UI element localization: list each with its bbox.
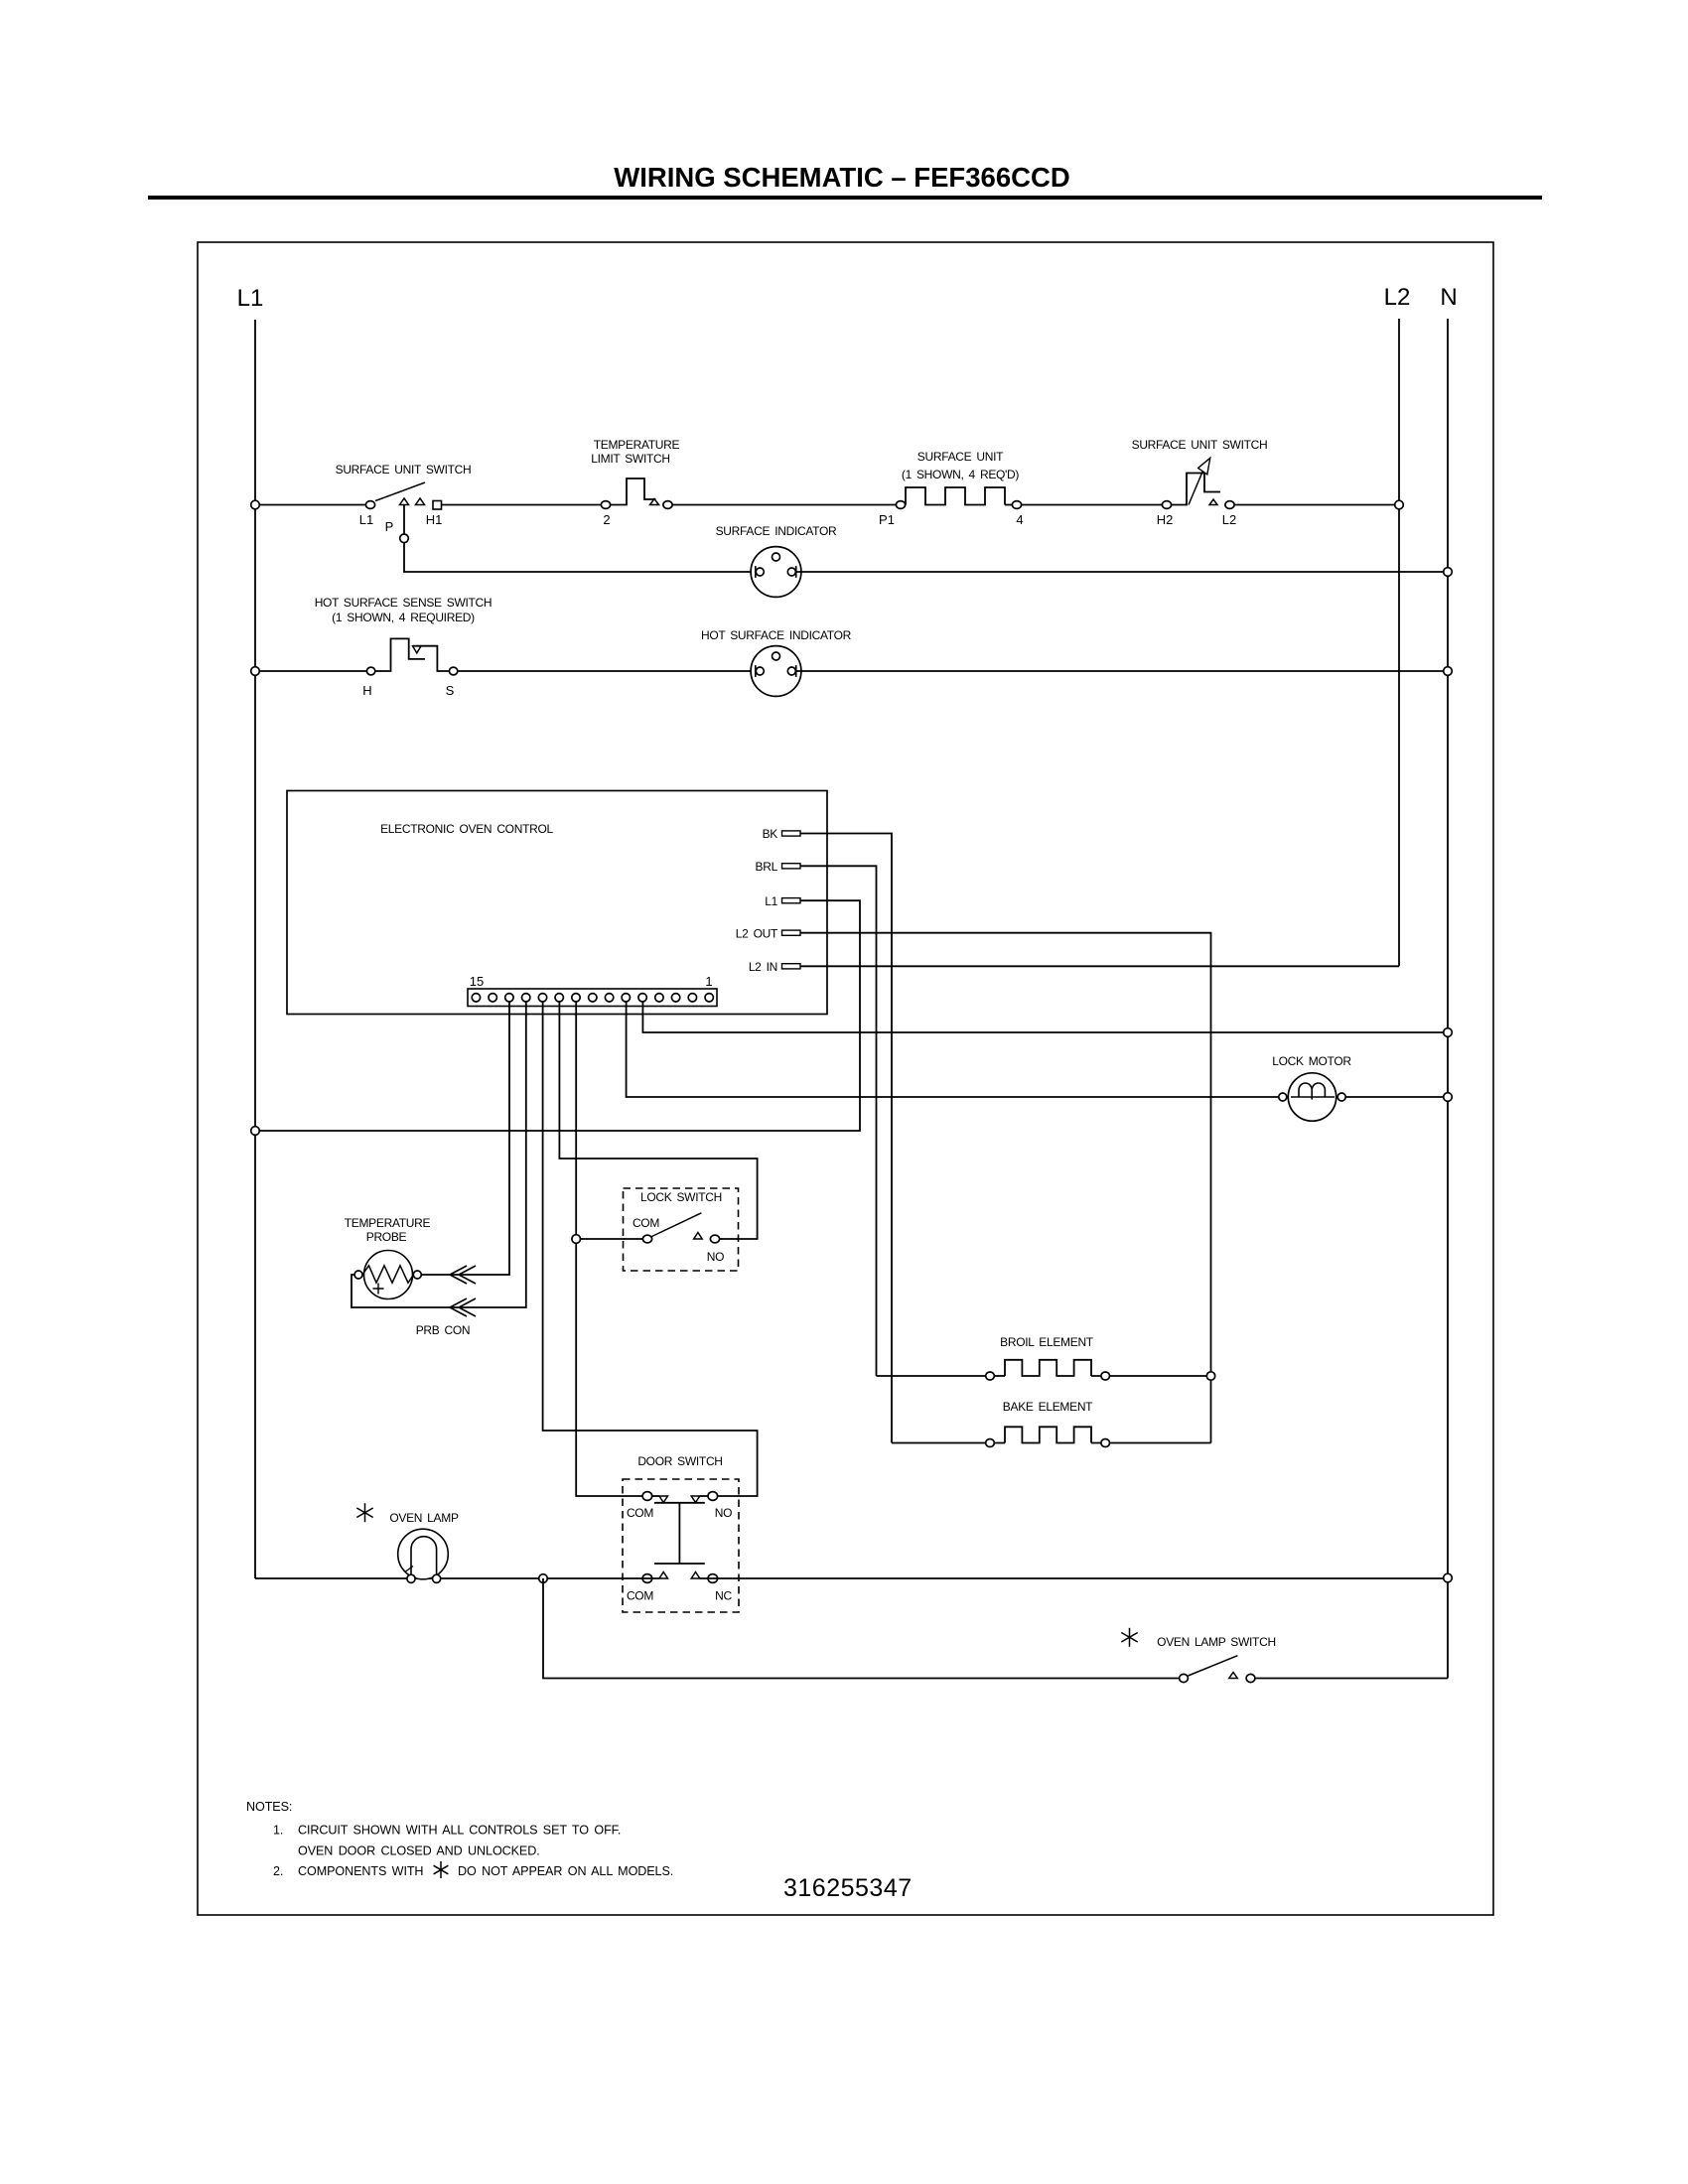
wire broil left	[877, 1375, 986, 1377]
wire door top contact to NO	[700, 1495, 708, 1497]
svg-text:316255347: 316255347	[783, 1874, 913, 1902]
temperature limit switch right terminal	[663, 501, 672, 509]
lock switch NO terminal	[710, 1235, 719, 1243]
note 2	[273, 1864, 673, 1878]
svg-text:WIRING SCHEMATIC – FEF366CCD: WIRING SCHEMATIC – FEF366CCD	[614, 162, 1069, 193]
door switch bottom contact triangle NC side	[691, 1572, 700, 1579]
broil element right terminal	[1101, 1372, 1110, 1380]
node pinrow-N junction	[1444, 1028, 1453, 1037]
svg-text:P: P	[385, 519, 394, 534]
lock switch dashed box	[624, 1188, 739, 1271]
wire pin drop to N row	[642, 1002, 1448, 1032]
surface unit switch SW1 terminal L1	[365, 501, 374, 509]
svg-text:15: 15	[470, 974, 484, 989]
surface unit switch SW2 terminal L2	[1225, 501, 1234, 509]
wire lamp row drop to switch	[543, 1578, 1179, 1679]
hot surface sense switch contact triangle	[413, 646, 422, 653]
door switch top contact triangle NO side	[691, 1496, 700, 1503]
wire pin drop to lock motor row	[627, 1002, 1279, 1097]
wire row3 middle segment	[458, 670, 756, 672]
svg-text:DOOR SWITCH: DOOR SWITCH	[637, 1454, 722, 1468]
svg-text:1: 1	[705, 974, 712, 989]
svg-text:NO: NO	[707, 1250, 724, 1264]
label door NC	[715, 1589, 732, 1603]
svg-text:LOCK SWITCH: LOCK SWITCH	[640, 1190, 722, 1204]
surface unit terminal 4	[1012, 501, 1021, 509]
svg-text:NO: NO	[715, 1506, 732, 1520]
oven lamp right terminal	[433, 1574, 441, 1582]
door switch bottom contact triangle COM side	[659, 1572, 668, 1579]
svg-text:2.: 2.	[273, 1864, 283, 1878]
node L1bus-EOC junction	[251, 1127, 260, 1136]
label H2 terminal	[1157, 512, 1174, 527]
svg-text:OVEN LAMP: OVEN LAMP	[389, 1511, 459, 1525]
wire EOC L2IN to L2 bus	[800, 965, 1399, 967]
svg-text:HOT SURFACE INDICATOR: HOT SURFACE INDICATOR	[701, 628, 852, 642]
svg-text:DO NOT APPEAR ON ALL MODELS.: DO NOT APPEAR ON ALL MODELS.	[458, 1864, 673, 1878]
bake element right terminal	[1101, 1439, 1110, 1447]
node row2-N junction	[1444, 568, 1453, 577]
svg-text:2: 2	[603, 512, 610, 527]
svg-text:LIMIT SWITCH: LIMIT SWITCH	[591, 452, 670, 466]
wire L2 bus vertical	[1398, 319, 1400, 966]
label P1 terminal	[879, 512, 895, 527]
svg-text:L1: L1	[237, 285, 264, 312]
title text	[614, 162, 1069, 193]
label broil element	[1000, 1335, 1094, 1349]
wire row1 H1 to limit switch	[442, 504, 602, 506]
lock switch blade	[652, 1213, 702, 1237]
svg-text:TEMPERATURE: TEMPERATURE	[345, 1216, 431, 1230]
label oven lamp	[389, 1511, 459, 1525]
svg-text:(1 SHOWN, 4 REQUIRED): (1 SHOWN, 4 REQUIRED)	[332, 611, 475, 624]
oven lamp switch asterisk	[1121, 1628, 1137, 1647]
wire N bus vertical	[1447, 319, 1449, 1679]
surface unit switch SW1 blade	[375, 482, 425, 501]
hot surface indicator lamp	[751, 646, 801, 697]
EOC pin L2 IN	[749, 960, 800, 974]
wire pin drop to door NO	[543, 1002, 758, 1496]
lock switch contact triangle	[694, 1233, 703, 1240]
label electronic oven control	[380, 822, 553, 836]
svg-text:HOT SURFACE SENSE SWITCH: HOT SURFACE SENSE SWITCH	[315, 596, 492, 610]
surface unit switch SW2 blade	[1189, 469, 1204, 505]
node row3-N junction	[1444, 667, 1453, 676]
wire EOC BK to bake corner	[800, 834, 892, 1443]
node lamprow-N junction	[1444, 1573, 1453, 1582]
svg-text:BRL: BRL	[756, 860, 778, 874]
label hot surface sense switch	[315, 596, 492, 624]
door switch top NO terminal	[708, 1492, 718, 1501]
label PRB CON	[416, 1323, 471, 1337]
surface unit switch SW2 arrowhead	[1198, 458, 1210, 475]
electronic oven control box	[287, 791, 827, 1015]
svg-text:TEMPERATURE: TEMPERATURE	[594, 438, 680, 452]
surface unit switch SW2 terminal H2	[1162, 501, 1171, 509]
surface unit switch SW2 contact triangle	[1209, 499, 1217, 505]
lock motor right terminal	[1337, 1093, 1345, 1101]
temperature probe right terminal	[413, 1271, 421, 1279]
svg-text:COM: COM	[627, 1589, 653, 1603]
wire bake left	[892, 1442, 985, 1444]
wire row1 terminal4 to H2	[1022, 504, 1163, 506]
svg-text:OVEN DOOR CLOSED AND UNLOCKED.: OVEN DOOR CLOSED AND UNLOCKED.	[298, 1844, 540, 1858]
label door COM top	[627, 1506, 653, 1520]
door switch top COM terminal	[642, 1492, 652, 1501]
probe connector chevrons upper	[450, 1266, 476, 1284]
label surface unit switch left	[336, 463, 472, 477]
svg-text:L2 IN: L2 IN	[749, 960, 777, 974]
label door COM bottom	[627, 1589, 653, 1603]
label lock motor	[1272, 1054, 1351, 1068]
svg-text:LOCK MOTOR: LOCK MOTOR	[1272, 1054, 1351, 1068]
label connector 1	[705, 974, 712, 989]
wire row3 right segment	[796, 670, 1448, 672]
wire EOC L1 to L1 bus	[259, 900, 860, 1131]
wire lock node to COM	[581, 1238, 643, 1240]
oven lamp bulb	[398, 1529, 449, 1579]
temperature limit switch label	[591, 438, 679, 466]
lock motor left terminal	[1279, 1093, 1287, 1101]
door switch top contact triangle COM side	[659, 1496, 668, 1503]
net label L1	[237, 285, 264, 312]
label 4 terminal	[1016, 512, 1023, 527]
svg-text:COM: COM	[627, 1506, 653, 1520]
wire lamp switch to N	[1255, 1678, 1448, 1680]
svg-text:SURFACE UNIT SWITCH: SURFACE UNIT SWITCH	[336, 463, 472, 477]
label surface unit switch right	[1132, 438, 1268, 452]
hot surface sense switch terminal S	[449, 667, 457, 675]
note 1 line 2	[298, 1844, 540, 1858]
oven lamp switch blade	[1189, 1656, 1238, 1676]
oven lamp asterisk	[356, 1503, 372, 1522]
node lamprow drop junction	[539, 1574, 548, 1583]
svg-text:SURFACE UNIT SWITCH: SURFACE UNIT SWITCH	[1132, 438, 1268, 452]
wire P drop lower and row2 left	[404, 543, 756, 572]
wire P drop upper	[403, 505, 405, 535]
svg-text:4: 4	[1016, 512, 1023, 527]
node lockmotor-N junction	[1444, 1093, 1453, 1102]
broil element left terminal	[986, 1372, 995, 1380]
svg-text:ELECTRONIC OVEN CONTROL: ELECTRONIC OVEN CONTROL	[380, 822, 553, 836]
wire broil terminal to element	[995, 1375, 1006, 1377]
wire row1 limit switch to P1	[672, 504, 896, 506]
label oven lamp switch	[1157, 1635, 1276, 1649]
svg-text:BROIL ELEMENT: BROIL ELEMENT	[1000, 1335, 1094, 1349]
label S terminal	[446, 683, 455, 698]
wire pin drop to lock COM and door COM	[576, 1002, 642, 1496]
EOC pin L1	[765, 894, 800, 908]
label bake element	[1003, 1400, 1093, 1414]
hot surface sense switch terminal H	[366, 667, 374, 675]
svg-text:SURFACE INDICATOR: SURFACE INDICATOR	[716, 524, 837, 538]
node row1-L1 junction	[251, 500, 260, 509]
temperature limit switch body	[611, 478, 656, 505]
svg-text:H2: H2	[1157, 512, 1174, 527]
svg-text:PRB CON: PRB CON	[416, 1323, 471, 1337]
wire pin drop to probe lower	[352, 1002, 526, 1307]
svg-text:SURFACE UNIT: SURFACE UNIT	[917, 450, 1004, 464]
label surface unit	[902, 450, 1020, 481]
wire L1 bus vertical	[254, 320, 256, 1578]
label H terminal	[362, 683, 371, 698]
probe connector chevrons lower	[450, 1298, 476, 1316]
EOC connector pins 15..1	[472, 994, 713, 1002]
label temperature probe	[345, 1216, 431, 1244]
surface unit terminal P1	[896, 501, 905, 509]
svg-text:NOTES:: NOTES:	[246, 1800, 292, 1814]
label surface indicator	[716, 524, 837, 538]
label lock switch	[640, 1190, 722, 1204]
wire row1 right segment	[1234, 504, 1399, 506]
wire EOC L2OUT to elements	[800, 933, 1211, 1443]
bake element left terminal	[986, 1439, 995, 1447]
wire row3 left segment	[255, 670, 366, 672]
svg-text:1.: 1.	[273, 1824, 283, 1838]
note 1 line 1	[273, 1824, 621, 1838]
door switch dashed box	[623, 1479, 739, 1612]
surface unit switch SW1 contact P triangle	[400, 498, 409, 505]
wire pin drop to lock NO	[559, 1002, 757, 1239]
svg-text:S: S	[446, 683, 455, 698]
wire row2 right segment	[796, 571, 1448, 573]
surface unit heating element	[906, 487, 1005, 505]
net label N	[1440, 284, 1457, 311]
border frame	[198, 242, 1493, 1915]
svg-text:L1: L1	[765, 894, 777, 908]
label L2 terminal	[1222, 512, 1236, 527]
node broil-L2OUT junction	[1206, 1372, 1214, 1380]
temperature probe body	[362, 1251, 414, 1299]
EOC connector strip	[468, 989, 717, 1007]
door switch bottom COM terminal	[642, 1574, 652, 1583]
label lock NO	[707, 1250, 724, 1264]
wire broil element to node	[1091, 1375, 1211, 1377]
node row3-L1 junction	[251, 667, 260, 676]
title rule	[148, 196, 1542, 200]
oven lamp switch contact triangle	[1229, 1673, 1238, 1679]
surface indicator lamp	[751, 547, 801, 598]
svg-text:L2: L2	[1384, 284, 1411, 311]
wire door top COM to contact	[652, 1495, 659, 1497]
oven lamp left terminal	[407, 1574, 415, 1582]
hot surface sense switch fixed contact	[413, 646, 449, 671]
label connector 15	[470, 974, 484, 989]
svg-text:BK: BK	[763, 827, 778, 841]
wire EOC BRL to broil corner	[800, 866, 877, 1376]
wire row1 left segment	[255, 504, 365, 506]
svg-text:L2 OUT: L2 OUT	[736, 926, 778, 940]
node row1-L2 junction	[1395, 500, 1404, 509]
svg-text:L2: L2	[1222, 512, 1236, 527]
net label L2	[1384, 284, 1411, 311]
label 2 terminal	[603, 512, 610, 527]
svg-text:COM: COM	[633, 1216, 659, 1230]
oven lamp switch left terminal	[1180, 1674, 1189, 1682]
surface unit switch SW1 contact triangle	[416, 498, 425, 505]
label door switch	[637, 1454, 722, 1468]
svg-text:CIRCUIT SHOWN WITH ALL CONTROL: CIRCUIT SHOWN WITH ALL CONTROLS SET TO O…	[298, 1824, 621, 1838]
wire lock motor to N	[1345, 1096, 1448, 1098]
wire bake element to corner	[1091, 1442, 1211, 1444]
svg-text:OVEN LAMP SWITCH: OVEN LAMP SWITCH	[1157, 1635, 1276, 1649]
EOC pin L2 OUT	[736, 926, 800, 940]
EOC pin BK	[763, 827, 800, 841]
part number	[783, 1874, 913, 1902]
surface unit switch SW1 terminal H1	[433, 501, 442, 510]
door switch actuator	[654, 1503, 705, 1564]
label H1 terminal	[426, 512, 443, 527]
node lock switch COM junction	[572, 1235, 581, 1244]
temperature probe left terminal	[354, 1271, 362, 1279]
label lock COM	[633, 1216, 659, 1230]
lock switch COM terminal	[642, 1235, 651, 1243]
svg-text:PROBE: PROBE	[366, 1230, 407, 1244]
lock motor body	[1288, 1073, 1336, 1121]
svg-text:H1: H1	[426, 512, 443, 527]
wire pin drop to probe upper	[422, 1002, 509, 1275]
notes heading	[246, 1800, 292, 1814]
svg-text:(1 SHOWN, 4 REQ'D): (1 SHOWN, 4 REQ'D)	[902, 468, 1020, 481]
temperature limit switch contact triangle	[650, 499, 659, 505]
oven lamp switch right terminal	[1246, 1674, 1255, 1682]
EOC pin BRL	[756, 860, 800, 874]
svg-text:L1: L1	[359, 512, 373, 527]
label P terminal	[385, 519, 394, 534]
svg-text:H: H	[362, 683, 371, 698]
node P inline connector	[400, 534, 409, 543]
label L1 terminal	[359, 512, 373, 527]
broil heating element	[1005, 1360, 1091, 1376]
label hot surface indicator	[701, 628, 852, 642]
surface unit switch SW2 body	[1172, 474, 1220, 505]
svg-text:N: N	[1440, 284, 1457, 311]
wire bake terminal to element	[995, 1442, 1006, 1444]
svg-text:P1: P1	[879, 512, 895, 527]
svg-text:NC: NC	[715, 1589, 732, 1603]
svg-text:BAKE ELEMENT: BAKE ELEMENT	[1003, 1400, 1093, 1414]
hot surface sense switch moving finger	[375, 638, 425, 671]
door switch bottom NC terminal	[708, 1574, 718, 1583]
bake heating element	[1005, 1427, 1091, 1442]
wire element to terminal 4	[1005, 504, 1012, 506]
wire lamp row left	[255, 1577, 659, 1579]
note 2 asterisk	[434, 1861, 449, 1878]
svg-text:COMPONENTS WITH: COMPONENTS WITH	[298, 1864, 423, 1878]
temperature limit switch terminal 2	[601, 501, 610, 509]
wire lamp row right	[700, 1577, 1448, 1579]
label door NO	[715, 1506, 732, 1520]
